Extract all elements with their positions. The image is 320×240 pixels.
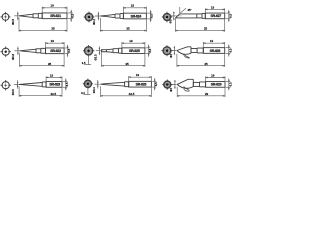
svg-text:25: 25 — [204, 27, 208, 31]
body sleeve SR-624 — [123, 13, 146, 19]
conical tip SR-626 — [101, 82, 125, 86]
svg-text:19: 19 — [136, 73, 140, 77]
svg-text:19: 19 — [51, 39, 55, 43]
front view circle SR-628 — [160, 45, 174, 56]
svg-text:Φ0.8: Φ0.8 — [11, 54, 15, 60]
right dimension SR-624 — [147, 10, 154, 22]
svg-text:19: 19 — [129, 39, 133, 43]
bottom dimension SR-628 — [177, 53, 225, 67]
bottom dimension SR-627 — [175, 18, 224, 32]
svg-text:Φ0.4: Φ0.4 — [92, 87, 96, 93]
centerline SR-626 — [95, 83, 102, 85]
top dimension SR-626 — [129, 73, 152, 81]
body sleeve SR-621 — [42, 13, 67, 19]
svg-text:6.5: 6.5 — [148, 48, 152, 52]
front view circle SR-627 — [160, 12, 173, 22]
body sleeve SR-626 — [129, 81, 152, 87]
cone transition SR-625 — [107, 49, 114, 52]
centerline SR-628 — [171, 50, 177, 52]
svg-text:19: 19 — [131, 4, 135, 8]
svg-text:Φ3: Φ3 — [169, 54, 173, 58]
conical tip SR-624 — [100, 14, 115, 17]
top dimension SR-627 — [205, 5, 224, 13]
right dimension SR-628 — [226, 44, 233, 56]
right dimension SR-622 — [65, 45, 71, 57]
top dimension SR-624 — [123, 4, 146, 13]
svg-text:6.5: 6.5 — [70, 13, 74, 17]
body sleeve SR-627 — [205, 13, 224, 19]
svg-text:SR-628: SR-628 — [210, 49, 221, 53]
tip diameter dim SR-629 — [169, 80, 176, 92]
svg-text:19: 19 — [210, 39, 214, 43]
bottom dimension SR-626 — [101, 86, 152, 97]
svg-text:35: 35 — [51, 27, 55, 31]
svg-text:Φ3: Φ3 — [169, 88, 173, 92]
svg-text:SR-622: SR-622 — [50, 49, 61, 53]
wedge tip SR-629 — [177, 79, 193, 88]
svg-text:6.5: 6.5 — [65, 82, 69, 86]
tip diameter dim SR-625 — [94, 46, 101, 60]
body sleeve SR-629 — [206, 82, 225, 88]
shaft/collar segments SR-626 — [125, 82, 129, 87]
bevel angle annotation 45deg SR-627 — [179, 7, 181, 13]
svg-text:19: 19 — [50, 4, 54, 8]
centerline SR-622 — [14, 50, 21, 52]
svg-text:43.5: 43.5 — [129, 92, 135, 96]
top dimension SR-628 — [203, 39, 224, 48]
svg-text:Φ0.5: Φ0.5 — [11, 89, 15, 95]
bottom dimension SR-625 — [102, 52, 145, 67]
top dimension SR-629 — [206, 73, 225, 81]
tip diameter dim SR-623 — [11, 80, 19, 95]
svg-text:6.5: 6.5 — [150, 14, 154, 18]
right dimension SR-627 — [226, 10, 233, 22]
front view circle SR-624 — [82, 12, 96, 23]
right dimension SR-626 — [152, 78, 158, 90]
svg-text:25: 25 — [204, 62, 208, 66]
knife tip SR-628 — [177, 47, 191, 55]
top dimension SR-625 — [122, 39, 145, 48]
conical tip SR-623 — [19, 83, 42, 87]
bottom dimension SR-622 — [20, 53, 65, 67]
tip diameter dim SR-624 — [92, 12, 99, 25]
shaft/collar segments SR-628 — [191, 48, 203, 53]
knife radius leader SR-628 — [184, 55, 190, 58]
conical tip SR-622 — [20, 49, 37, 52]
body sleeve SR-628 — [203, 48, 224, 54]
body sleeve SR-623 — [46, 82, 62, 88]
front view circle SR-629 — [161, 80, 174, 90]
svg-text:SR-625: SR-625 — [129, 49, 140, 53]
shaft/collar segments SR-629 — [193, 82, 205, 87]
svg-text:Φ3: Φ3 — [169, 19, 173, 23]
front view circle SR-621 — [1, 12, 11, 22]
svg-text:SR-626: SR-626 — [136, 82, 147, 86]
flat rod tip SR-625 — [102, 50, 107, 52]
front view circle SR-626 — [81, 79, 94, 95]
svg-text:SR-624: SR-624 — [131, 14, 142, 18]
conical tip SR-621 — [19, 14, 33, 17]
shaft/collar segments SR-622 — [36, 48, 46, 53]
svg-text:Φ3.5: Φ3.5 — [94, 54, 98, 60]
centerline SR-624 — [95, 15, 102, 17]
svg-text:SR-629: SR-629 — [211, 83, 222, 87]
wedge leader SR-629 — [184, 87, 190, 91]
svg-text:45°: 45° — [187, 8, 191, 12]
shaft/collar segments SR-624 — [115, 14, 123, 19]
svg-text:35: 35 — [125, 62, 129, 66]
svg-text:6.5: 6.5 — [228, 82, 232, 86]
bottom dimension SR-623 — [19, 86, 62, 97]
right dimension SR-621 — [68, 10, 75, 22]
svg-text:19: 19 — [211, 5, 215, 9]
front view circle SR-622 — [1, 47, 11, 57]
front view circle SR-623 — [1, 80, 11, 90]
svg-text:6.5: 6.5 — [228, 48, 232, 52]
centerline SR-627 — [171, 15, 182, 17]
body sleeve SR-622 — [46, 48, 65, 54]
right dimension SR-625 — [146, 45, 152, 57]
centerline SR-625 — [96, 50, 103, 52]
tip diameter dim SR-622 — [11, 47, 19, 61]
svg-text:0.4: 0.4 — [81, 91, 85, 95]
svg-text:19: 19 — [50, 73, 54, 77]
shaft/collar segments SR-627 — [197, 13, 206, 18]
svg-text:SR-623: SR-623 — [49, 83, 60, 87]
body sleeve SR-625 — [122, 48, 145, 54]
tip diameter dim SR-626 — [92, 80, 99, 93]
svg-text:29: 29 — [205, 92, 209, 96]
svg-text:43.5: 43.5 — [50, 92, 56, 96]
tip diameter dim SR-628 — [169, 46, 176, 58]
shaft/collar segments SR-623 — [42, 82, 46, 87]
right dimension SR-629 — [226, 78, 233, 90]
svg-text:35: 35 — [48, 62, 52, 66]
top dimension SR-623 — [46, 73, 62, 81]
svg-text:6.5: 6.5 — [228, 14, 232, 18]
svg-text:6.5: 6.5 — [67, 48, 71, 52]
tip diameter dim SR-621 — [11, 12, 19, 26]
bottom dimension SR-629 — [177, 87, 225, 97]
bevel rod tip SR-627 — [175, 14, 196, 18]
svg-text:Φ0.2: Φ0.2 — [92, 19, 96, 25]
bottom dimension SR-621 — [19, 18, 67, 32]
right dimension SR-623 — [63, 78, 69, 90]
front view circle SR-625 — [81, 45, 95, 65]
centerline SR-621 — [14, 15, 21, 17]
top dimension SR-622 — [46, 39, 65, 48]
centerline SR-623 — [14, 83, 21, 85]
svg-text:3.5: 3.5 — [82, 61, 86, 65]
bottom dimension SR-624 — [100, 18, 146, 32]
top dimension SR-621 — [42, 4, 67, 13]
svg-text:6.5: 6.5 — [154, 82, 158, 86]
shaft/collar segments SR-621 — [33, 13, 42, 18]
svg-text:SR-621: SR-621 — [50, 14, 61, 18]
svg-text:19: 19 — [211, 73, 215, 77]
svg-text:Φ0.5: Φ0.5 — [11, 19, 15, 25]
svg-text:SR-627: SR-627 — [210, 14, 221, 18]
centerline SR-629 — [172, 83, 178, 85]
shaft/collar segments SR-625 — [113, 48, 122, 53]
tip diameter dim SR-627 — [169, 12, 175, 24]
svg-text:35: 35 — [126, 27, 130, 31]
